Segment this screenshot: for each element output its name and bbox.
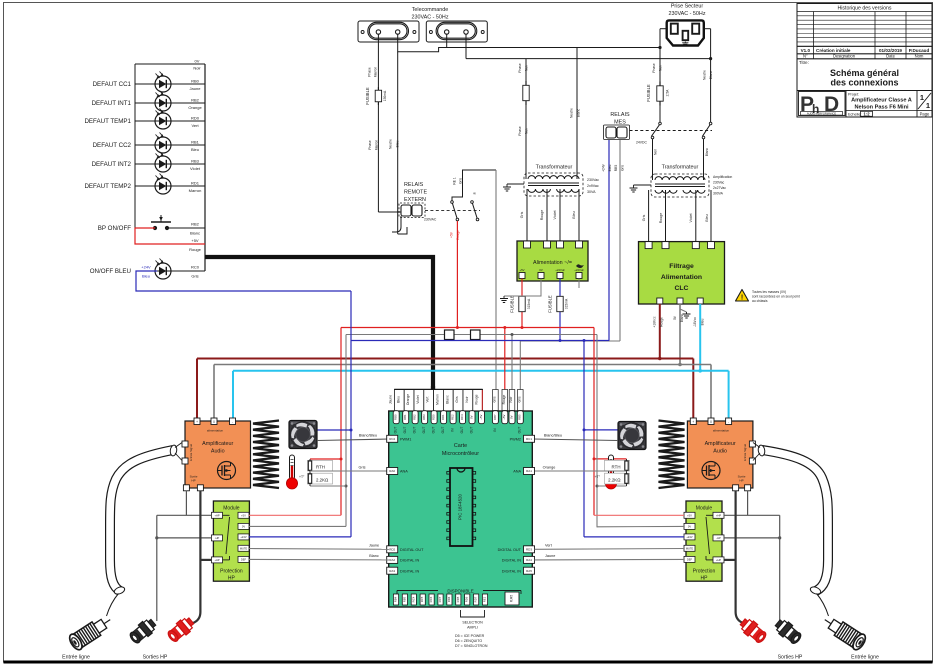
svg-text:RE1: RE1 xyxy=(483,596,487,602)
svg-text:AMPLI: AMPLI xyxy=(467,626,478,630)
svg-text:RTH: RTH xyxy=(612,465,621,470)
svg-text:Violet: Violet xyxy=(689,214,693,223)
svg-text:Projet:: Projet: xyxy=(848,93,859,97)
svg-text:FUSIBLE: FUSIBLE xyxy=(510,295,515,313)
svg-text:Echelle:: Echelle: xyxy=(848,112,862,116)
svg-text:RD5: RD5 xyxy=(456,596,460,602)
svg-text:HP: HP xyxy=(701,576,709,582)
svg-text:Telecommande: Telecommande xyxy=(412,7,449,13)
svg-text:0: 0 xyxy=(213,420,215,424)
svg-text:RB1: RB1 xyxy=(191,140,200,145)
svg-text:DEF: DEF xyxy=(687,558,693,562)
svg-text:Marron: Marron xyxy=(436,394,440,405)
svg-text:Nom: Nom xyxy=(915,54,924,59)
svg-text:Jaune: Jaune xyxy=(545,554,555,558)
svg-text:30VA: 30VA xyxy=(587,190,596,194)
svg-text:Sorties HP: Sorties HP xyxy=(143,655,168,661)
svg-text:REMOTE: REMOTE xyxy=(404,190,427,196)
svg-text:Blanc/Bleu: Blanc/Bleu xyxy=(544,434,562,438)
svg-text:Titre:: Titre: xyxy=(799,60,809,65)
svg-text:-HP: -HP xyxy=(716,536,721,540)
svg-text:RC4: RC4 xyxy=(460,414,464,420)
svg-text:Nelson Pass F6 Mini: Nelson Pass F6 Mini xyxy=(854,105,909,111)
svg-text:+HP: +HP xyxy=(214,513,219,517)
svg-text:Phase: Phase xyxy=(368,140,372,150)
svg-text:Gris: Gris xyxy=(517,396,521,402)
svg-text:Neutre: Neutre xyxy=(389,139,393,149)
svg-text:Vert: Vert xyxy=(191,123,199,128)
svg-text:RE2: RE2 xyxy=(450,414,454,420)
svg-text:Transformateur: Transformateur xyxy=(662,165,699,171)
svg-text:PIC 18F4520: PIC 18F4520 xyxy=(458,494,463,520)
svg-text:230VAC - 50Hz: 230VAC - 50Hz xyxy=(668,11,705,17)
svg-text:Vert: Vert xyxy=(545,543,553,547)
svg-text:Bleu: Bleu xyxy=(572,211,576,218)
svg-text:Orange: Orange xyxy=(543,466,556,470)
svg-text:D5 = ICE POWER: D5 = ICE POWER xyxy=(455,634,485,638)
svg-text:Entrée ligne: Entrée ligne xyxy=(851,655,879,661)
svg-text:0V: 0V xyxy=(242,525,245,529)
svg-text:Microcontrôleur: Microcontrôleur xyxy=(442,451,479,457)
svg-text:RE 1: RE 1 xyxy=(453,177,457,184)
svg-text:Historique des versions: Historique des versions xyxy=(838,6,892,12)
svg-text:Schéma général: Schéma général xyxy=(830,68,899,78)
svg-text:RA0: RA0 xyxy=(389,469,395,473)
svg-text:DEFAUT INT2: DEFAUT INT2 xyxy=(92,161,132,168)
svg-text:Gris: Gris xyxy=(492,396,496,402)
svg-text:Blanc/Bleu: Blanc/Bleu xyxy=(359,434,377,438)
svg-text:DEFAUT TEMP1: DEFAUT TEMP1 xyxy=(84,118,131,125)
svg-text:RD7: RD7 xyxy=(474,596,478,602)
svg-text:Noir: Noir xyxy=(654,148,658,155)
svg-text:Violet: Violet xyxy=(553,211,557,220)
svg-text:RD4: RD4 xyxy=(447,596,451,602)
svg-text:Orange: Orange xyxy=(406,394,410,405)
svg-text:OUT: OUT xyxy=(394,427,398,434)
svg-text:2.5A: 2.5A xyxy=(666,89,670,97)
svg-text:BP ON/OFF: BP ON/OFF xyxy=(98,225,131,232)
svg-text:RA4: RA4 xyxy=(526,558,532,562)
svg-text:FUSIBLE: FUSIBLE xyxy=(548,295,553,313)
svg-text:Noir: Noir xyxy=(193,66,201,71)
svg-text:150mA: 150mA xyxy=(383,90,387,101)
svg-text:DEFAUT CC1: DEFAUT CC1 xyxy=(93,81,132,88)
svg-text:OUT: OUT xyxy=(413,427,417,434)
svg-text:+T°: +T° xyxy=(595,475,601,479)
svg-text:Toutes les masses (0V): Toutes les masses (0V) xyxy=(752,290,786,294)
svg-text:Protection: Protection xyxy=(220,569,243,575)
svg-text:OUT: OUT xyxy=(469,427,473,434)
svg-text:DIGITAL IN: DIGITAL IN xyxy=(400,569,419,573)
svg-text:RB3: RB3 xyxy=(422,414,426,420)
svg-text:+5V: +5V xyxy=(519,268,524,272)
svg-text:Gris: Gris xyxy=(642,215,646,222)
svg-text:Entrée Signal: Entrée Signal xyxy=(743,444,747,461)
svg-text:Neutre: Neutre xyxy=(703,70,707,80)
svg-text:Blanc: Blanc xyxy=(680,314,684,323)
svg-text:+24Vdc: +24Vdc xyxy=(555,268,565,272)
svg-text:Bleu: Bleu xyxy=(396,396,400,403)
svg-text:PWM2: PWM2 xyxy=(510,438,521,442)
svg-text:DISPONIBLE: DISPONIBLE xyxy=(447,589,473,594)
svg-text:+24V: +24V xyxy=(602,163,606,172)
svg-text:Blanc: Blanc xyxy=(709,71,713,80)
svg-text:Création initiale: Création initiale xyxy=(816,48,851,53)
svg-text:CLC: CLC xyxy=(675,285,689,292)
svg-text:Gris: Gris xyxy=(520,212,524,219)
svg-text:Violet: Violet xyxy=(190,166,201,171)
svg-text:OUT: OUT xyxy=(403,427,407,434)
svg-text:2x9Vac: 2x9Vac xyxy=(587,184,599,188)
svg-text:230Vac: 230Vac xyxy=(713,181,725,185)
svg-text:+: + xyxy=(692,420,694,424)
svg-text:Audio: Audio xyxy=(713,449,727,455)
svg-text:1: 1 xyxy=(920,93,924,102)
svg-text:+5V: +5V xyxy=(450,231,454,238)
svg-text:+5V: +5V xyxy=(502,415,506,420)
svg-text:ANA: ANA xyxy=(400,470,408,474)
svg-text:01/02/2019: 01/02/2019 xyxy=(879,48,902,53)
svg-text:Noir: Noir xyxy=(509,396,513,403)
svg-text:Module: Module xyxy=(696,506,713,512)
svg-text:MUTE: MUTE xyxy=(240,546,248,550)
svg-text:DIGITAL IN: DIGITAL IN xyxy=(502,559,521,563)
svg-text:Rouge: Rouge xyxy=(660,317,664,327)
svg-text:OUT: OUT xyxy=(441,427,445,434)
svg-text:ANA: ANA xyxy=(513,470,521,474)
svg-text:1: 1 xyxy=(926,101,930,110)
svg-text:RB5: RB5 xyxy=(614,165,618,172)
svg-text:Amplificateur: Amplificateur xyxy=(705,441,736,447)
svg-text:RB2: RB2 xyxy=(191,222,200,227)
svg-text:2x27Vac: 2x27Vac xyxy=(713,186,726,190)
svg-text:2.2KΩ: 2.2KΩ xyxy=(316,478,329,483)
svg-text:Phase: Phase xyxy=(518,126,522,136)
svg-text:DIGITAL IN: DIGITAL IN xyxy=(400,559,419,563)
svg-text:RA2: RA2 xyxy=(389,558,395,562)
svg-text:+5V: +5V xyxy=(479,415,483,420)
svg-text:+5V: +5V xyxy=(191,238,199,243)
svg-text:OUT: OUT xyxy=(518,427,522,434)
svg-text:OUT: OUT xyxy=(432,427,436,434)
svg-text:Marron: Marron xyxy=(374,67,378,78)
svg-text:HP: HP xyxy=(191,479,195,483)
svg-text:SELECTION: SELECTION xyxy=(462,621,483,625)
svg-text:alimentation: alimentation xyxy=(207,429,224,433)
svg-text:Bleu: Bleu xyxy=(608,165,612,172)
svg-text:RD3: RD3 xyxy=(526,548,532,552)
svg-text:RD1: RD1 xyxy=(441,414,445,420)
svg-text:0V: 0V xyxy=(509,415,513,419)
svg-text:+18Vcc: +18Vcc xyxy=(653,316,657,327)
svg-text:DIGITAL IN: DIGITAL IN xyxy=(502,569,521,573)
svg-text:-18Vcc: -18Vcc xyxy=(693,317,697,328)
svg-text:sont raccordées en un seul poi: sont raccordées en un seul point xyxy=(752,295,800,299)
svg-text:+T°: +T° xyxy=(299,475,305,479)
svg-text:RB5: RB5 xyxy=(402,596,406,602)
svg-text:EXTERN: EXTERN xyxy=(404,197,426,203)
svg-text:Marron: Marron xyxy=(375,140,379,151)
svg-text:Filtrage: Filtrage xyxy=(669,263,694,270)
svg-text:P.: P. xyxy=(473,191,477,194)
svg-text:DEFAUT CC2: DEFAUT CC2 xyxy=(93,142,132,149)
svg-text:Vert: Vert xyxy=(426,396,430,402)
svg-text:Entrée Signal: Entrée Signal xyxy=(189,444,193,461)
svg-text:RC0: RC0 xyxy=(191,265,200,270)
svg-text:Rouge: Rouge xyxy=(540,210,544,221)
svg-text:Gris: Gris xyxy=(359,466,366,470)
svg-text:+HP: +HP xyxy=(716,558,721,562)
svg-text:300VA: 300VA xyxy=(713,192,724,196)
svg-text:Bleu: Bleu xyxy=(701,319,705,326)
svg-text:RC1: RC1 xyxy=(526,437,532,441)
svg-text:Bleu: Bleu xyxy=(705,214,709,221)
svg-text:+HP: +HP xyxy=(716,513,721,517)
svg-text:1:2: 1:2 xyxy=(863,111,870,116)
svg-text:Audio: Audio xyxy=(211,449,225,455)
svg-text:Transformateur: Transformateur xyxy=(536,165,573,171)
svg-text:RB0: RB0 xyxy=(394,414,398,420)
svg-text:MUTE: MUTE xyxy=(686,546,694,550)
svg-text:Blanc: Blanc xyxy=(445,395,449,404)
svg-text:Blanc: Blanc xyxy=(705,148,709,157)
svg-text:RD0: RD0 xyxy=(432,414,436,420)
svg-text:DEF: DEF xyxy=(241,558,247,562)
svg-text:Marron: Marron xyxy=(189,188,202,193)
svg-text:Orange: Orange xyxy=(188,105,202,110)
svg-text:RC6: RC6 xyxy=(429,596,433,602)
svg-text:-: - xyxy=(728,420,729,424)
svg-text:Phase: Phase xyxy=(518,63,522,73)
svg-text:FUSIBLE: FUSIBLE xyxy=(365,87,370,105)
svg-text:Alimentation: Alimentation xyxy=(661,274,702,281)
svg-text:Gris: Gris xyxy=(621,165,625,171)
svg-text:Module: Module xyxy=(223,506,240,512)
svg-text:RB0: RB0 xyxy=(191,79,200,84)
svg-text:FUSIBLE: FUSIBLE xyxy=(646,84,651,102)
svg-text:RC5: RC5 xyxy=(420,596,424,602)
svg-text:+24V: +24V xyxy=(686,535,692,539)
svg-text:Jaune: Jaune xyxy=(190,86,202,91)
svg-text:Gris: Gris xyxy=(455,396,459,403)
svg-text:-HP: -HP xyxy=(215,536,220,540)
svg-text:Protection: Protection xyxy=(693,569,716,575)
svg-text:Carte: Carte xyxy=(454,443,467,449)
svg-text:Phase: Phase xyxy=(652,63,656,73)
svg-text:AUDIO-PERFORMANCE: AUDIO-PERFORMANCE xyxy=(807,111,837,115)
svg-text:230Vac: 230Vac xyxy=(587,178,599,182)
svg-text:315mA: 315mA xyxy=(527,298,531,309)
svg-text:ON/OFF BLEU: ON/OFF BLEU xyxy=(90,268,131,275)
svg-text:+: + xyxy=(196,420,198,424)
svg-text:PWM1: PWM1 xyxy=(400,438,411,442)
svg-text:Jaune: Jaune xyxy=(369,543,379,547)
svg-text:D6 = ZENQUITO: D6 = ZENQUITO xyxy=(455,639,482,643)
svg-text:DEFAUT INT1: DEFAUT INT1 xyxy=(92,100,132,107)
svg-text:RB2: RB2 xyxy=(191,98,200,103)
svg-text:0V: 0V xyxy=(688,525,691,529)
svg-text:Amplificateur: Amplificateur xyxy=(202,441,233,447)
svg-text:Alimentation ~/=: Alimentation ~/= xyxy=(533,260,572,266)
svg-text:Noir: Noir xyxy=(525,127,529,134)
svg-text:RB3: RB3 xyxy=(191,159,200,164)
svg-text:RELAIS: RELAIS xyxy=(610,112,630,118)
svg-text:Date: Date xyxy=(886,54,896,59)
svg-text:Phase: Phase xyxy=(368,67,372,77)
svg-text:OUT: OUT xyxy=(460,427,464,434)
svg-text:au châssis: au châssis xyxy=(752,299,768,303)
svg-text:RTH: RTH xyxy=(316,465,325,470)
svg-text:RELAIS: RELAIS xyxy=(404,182,424,188)
svg-text:230VAC: 230VAC xyxy=(424,218,437,222)
svg-text:Sorties HP: Sorties HP xyxy=(778,655,803,661)
svg-text:Rouge: Rouge xyxy=(189,247,202,252)
svg-text:Bleu: Bleu xyxy=(142,274,150,279)
svg-text:RD0: RD0 xyxy=(191,116,200,121)
svg-text:HP: HP xyxy=(739,479,743,483)
svg-text:RJ45: RJ45 xyxy=(510,595,514,603)
svg-text:0V: 0V xyxy=(469,415,473,419)
svg-text:Rouge: Rouge xyxy=(475,394,479,404)
svg-text:24VDC: 24VDC xyxy=(636,141,647,145)
svg-text:Blanc: Blanc xyxy=(190,231,200,236)
svg-text:+5V: +5V xyxy=(241,513,246,517)
svg-text:Noir: Noir xyxy=(465,396,469,403)
svg-text:des connexions: des connexions xyxy=(830,78,898,88)
svg-text:+5V: +5V xyxy=(687,513,692,517)
svg-text:RC4: RC4 xyxy=(411,596,415,602)
svg-text:RB4: RB4 xyxy=(394,596,398,602)
svg-text:2.2KΩ: 2.2KΩ xyxy=(608,478,621,483)
svg-text:RC2: RC2 xyxy=(389,437,395,441)
svg-text:-: - xyxy=(232,420,233,424)
svg-text:Entrée ligne: Entrée ligne xyxy=(62,655,90,661)
svg-text:!: ! xyxy=(741,295,743,302)
svg-text:RD6: RD6 xyxy=(465,596,469,602)
svg-text:0V: 0V xyxy=(539,268,543,272)
svg-text:RD2: RD2 xyxy=(389,548,395,552)
svg-text:HP: HP xyxy=(228,576,236,582)
svg-text:Rouge: Rouge xyxy=(456,230,460,240)
svg-text:N°: N° xyxy=(803,54,808,59)
svg-text:+HP: +HP xyxy=(214,558,219,562)
svg-text:RA3: RA3 xyxy=(389,569,395,573)
svg-text:RB5: RB5 xyxy=(518,414,522,420)
svg-text:+24Vdc: +24Vdc xyxy=(574,268,584,272)
svg-text:Amplificateur Classe A: Amplificateur Classe A xyxy=(851,98,912,104)
svg-text:+24V: +24V xyxy=(240,535,246,539)
svg-text:Gris: Gris xyxy=(459,178,463,184)
svg-text:315mA: 315mA xyxy=(565,298,569,309)
svg-text:DIGITAL OUT: DIGITAL OUT xyxy=(400,548,424,552)
svg-text:Noir: Noir xyxy=(659,64,663,71)
svg-text:DIGITAL OUT: DIGITAL OUT xyxy=(498,548,522,552)
svg-text:OUT: OUT xyxy=(422,427,426,434)
svg-text:RB7: RB7 xyxy=(493,414,497,420)
svg-text:Page: Page xyxy=(920,112,930,117)
svg-text:0V: 0V xyxy=(195,59,200,64)
svg-text:Violet: Violet xyxy=(416,395,420,403)
svg-text:P.Ducaud: P.Ducaud xyxy=(909,48,930,53)
svg-text:Blanc: Blanc xyxy=(577,109,581,118)
svg-text:0: 0 xyxy=(710,420,712,424)
svg-text:DEFAUT TEMP2: DEFAUT TEMP2 xyxy=(84,183,131,190)
svg-text:+24V: +24V xyxy=(141,265,151,270)
svg-text:RD1: RD1 xyxy=(191,181,200,186)
svg-text:D7 = SINGLOTRON: D7 = SINGLOTRON xyxy=(455,644,488,648)
svg-text:Bleu: Bleu xyxy=(191,147,199,152)
svg-text:Amplification: Amplification xyxy=(713,175,732,179)
svg-text:Prise Secteur: Prise Secteur xyxy=(671,4,704,10)
svg-text:RC7: RC7 xyxy=(438,596,442,602)
svg-text:Blanc: Blanc xyxy=(369,554,379,558)
svg-text:Designation: Designation xyxy=(833,54,856,59)
svg-text:RB2: RB2 xyxy=(413,414,417,420)
svg-text:Jaune: Jaune xyxy=(388,395,392,404)
svg-text:RA5: RA5 xyxy=(526,569,532,573)
svg-text:Rouge: Rouge xyxy=(502,394,506,404)
svg-text:230VAC - 50Hz: 230VAC - 50Hz xyxy=(411,15,448,21)
svg-text:Noir: Noir xyxy=(525,64,529,71)
svg-text:RB1: RB1 xyxy=(403,414,407,420)
svg-text:RA1: RA1 xyxy=(526,469,532,473)
svg-text:alimentation: alimentation xyxy=(713,429,730,433)
svg-text:Gris: Gris xyxy=(191,274,198,279)
svg-text:V1.0: V1.0 xyxy=(801,48,811,53)
svg-text:Neutre: Neutre xyxy=(570,108,574,118)
svg-text:Rouge: Rouge xyxy=(659,213,663,224)
